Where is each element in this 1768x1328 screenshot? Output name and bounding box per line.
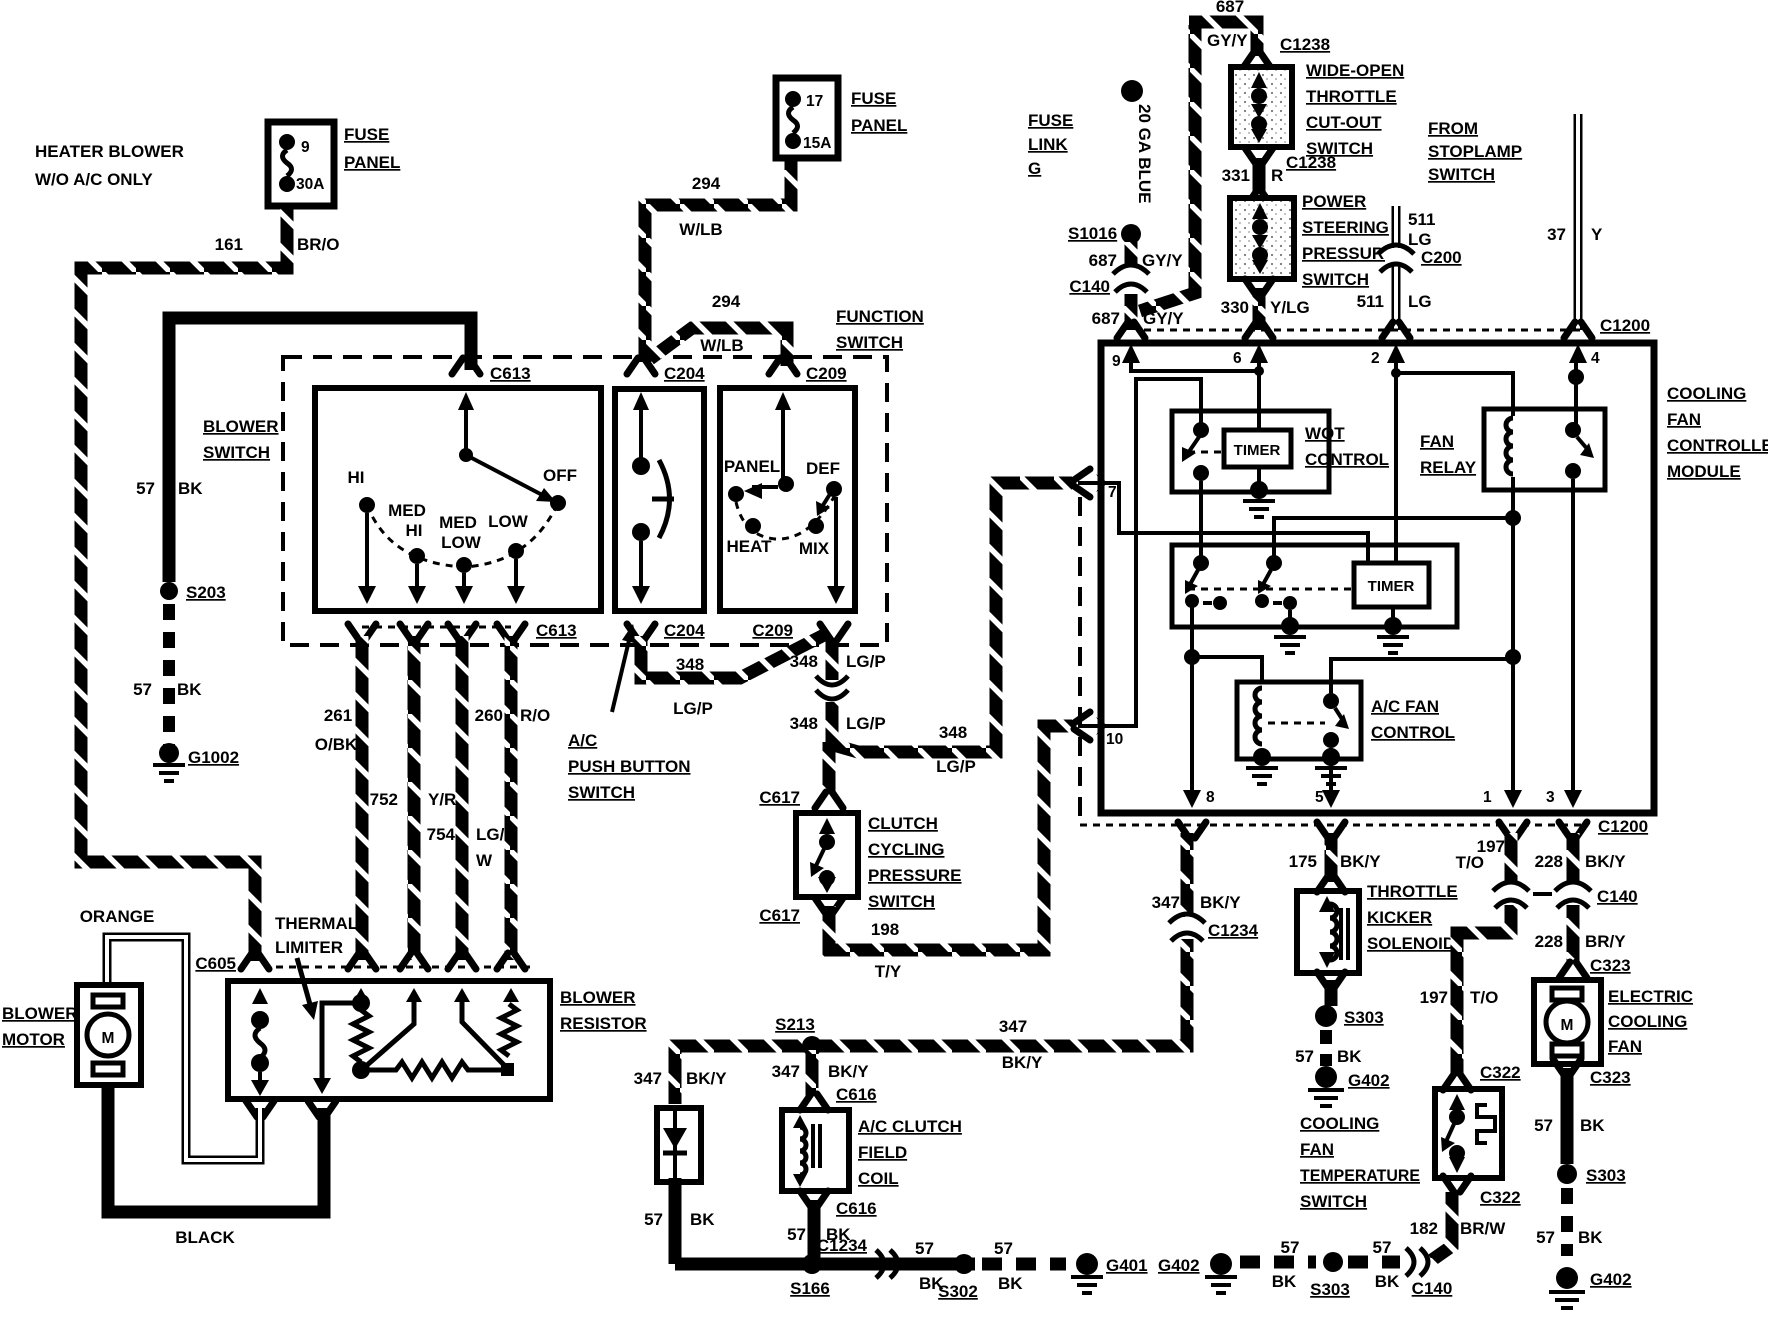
timer 2 box	[1354, 563, 1429, 607]
svg-text:W/O A/C ONLY: W/O A/C ONLY	[35, 170, 153, 189]
pin 4 arrow and number	[1569, 344, 1600, 367]
svg-text:C204: C204	[664, 364, 705, 383]
pin 5 connector	[1317, 822, 1345, 838]
fuse panel F1 (30A fuse 9)	[268, 122, 334, 206]
label FUNCTION SWITCH	[836, 307, 924, 352]
wire 57 BK below coil	[808, 1200, 821, 1260]
svg-text:57: 57	[136, 479, 155, 498]
svg-text:OFF: OFF	[543, 466, 577, 485]
dashed ground run to G401	[982, 1258, 1066, 1271]
wire HI contact down	[358, 513, 376, 604]
svg-text:9: 9	[1112, 353, 1121, 370]
wire 348 LG/P branch to module pin 7	[830, 483, 1072, 752]
svg-text:CUT-OUT: CUT-OUT	[1306, 113, 1382, 132]
timer 1 box	[1224, 430, 1291, 467]
connector below resistor (black tap)	[308, 1101, 336, 1117]
pin 8 internal vertical	[1183, 606, 1201, 808]
svg-text:CONTROLLER: CONTROLLER	[1667, 436, 1768, 455]
wire 198 T/Y to module pin 10	[829, 726, 1072, 950]
label 57 BK	[1373, 1238, 1400, 1291]
svg-text:S302: S302	[938, 1282, 978, 1301]
resistor internal node and black-wire tap	[313, 994, 370, 1094]
black wire from motor to resistor	[108, 1085, 324, 1212]
pin 6 connector	[1245, 322, 1273, 338]
wire 260 R/O	[505, 636, 518, 960]
svg-text:294: 294	[692, 174, 721, 193]
connector C140 (pin3 wire)	[1555, 882, 1638, 908]
svg-text:LG: LG	[1408, 230, 1432, 249]
ground (WOT control)	[1243, 467, 1275, 517]
svg-text:Y/R: Y/R	[428, 790, 456, 809]
svg-text:FAN: FAN	[1420, 432, 1454, 451]
electric cooling fan motor	[1534, 980, 1601, 1064]
pin 6 line to WOT timer	[1257, 360, 1261, 428]
svg-text:FUNCTION: FUNCTION	[836, 307, 924, 326]
svg-text:HI: HI	[406, 521, 423, 540]
svg-text:SWITCH: SWITCH	[836, 333, 903, 352]
connector C613 top	[452, 358, 531, 383]
label COOLING FAN TEMPERATURE SWITCH	[1300, 1114, 1420, 1211]
svg-text:261: 261	[324, 706, 352, 725]
wire 687 GY/Y top run	[1189, 22, 1257, 56]
svg-text:G1002: G1002	[188, 748, 239, 767]
wire 687 GY/Y to pin 9	[1125, 294, 1138, 330]
svg-text:CYCLING: CYCLING	[868, 840, 945, 859]
svg-text:BK: BK	[1580, 1116, 1605, 1135]
ground (A/C coil)	[1246, 748, 1278, 784]
WOT control sub-box	[1172, 411, 1329, 492]
wire LOW contact down	[507, 559, 525, 604]
C605 connectors for switch wires	[348, 953, 376, 969]
svg-text:57: 57	[915, 1239, 934, 1258]
pin 9 arrow and number	[1112, 344, 1140, 370]
label A/C PUSH BUTTON SWITCH with pointer	[568, 624, 690, 802]
C1200 left dashed boundary	[1078, 497, 1082, 822]
svg-text:TIMER: TIMER	[1368, 578, 1415, 595]
label BLOWER RESISTOR	[560, 988, 647, 1033]
svg-text:Y/LG: Y/LG	[1270, 298, 1310, 317]
fuse link 20 GA BLUE terminal dot	[1121, 80, 1143, 102]
svg-text:COOLING: COOLING	[1608, 1012, 1687, 1031]
connector C1238 bottom	[1245, 148, 1336, 172]
contact HI	[348, 468, 376, 513]
pin 2 line down to timer 2	[1391, 360, 1401, 561]
connector C1234 (ground run)	[817, 1236, 898, 1278]
svg-text:S303: S303	[1586, 1166, 1626, 1185]
svg-text:182: 182	[1410, 1219, 1438, 1238]
contact MED LOW	[439, 513, 482, 573]
label CLUTCH CYCLING PRESSURE SWITCH	[868, 814, 962, 911]
svg-text:PANEL: PANEL	[724, 457, 780, 476]
WOT switch contacts	[1182, 422, 1222, 563]
svg-text:HI: HI	[348, 468, 365, 487]
svg-text:COOLING: COOLING	[1300, 1114, 1379, 1133]
svg-text:511: 511	[1357, 292, 1384, 311]
svg-text:WIDE-OPEN: WIDE-OPEN	[1306, 61, 1404, 80]
splice S203	[160, 582, 226, 602]
svg-text:GY/Y: GY/Y	[1207, 31, 1248, 50]
svg-text:8: 8	[1206, 789, 1215, 806]
svg-text:348: 348	[790, 652, 818, 671]
svg-text:LG/P: LG/P	[673, 699, 713, 718]
connector below resistor (orange tap)	[246, 1101, 274, 1117]
svg-text:C322: C322	[1480, 1188, 1521, 1207]
svg-text:RELAY: RELAY	[1420, 458, 1477, 477]
wire 57 BK blower switch ground feed	[169, 318, 471, 582]
svg-text:BK: BK	[1272, 1272, 1297, 1291]
wire 752 entry diagonal	[366, 992, 414, 1066]
wide-open throttle cut-out switch	[1231, 67, 1292, 147]
svg-text:C140: C140	[1412, 1279, 1453, 1298]
svg-text:C323: C323	[1590, 956, 1631, 975]
connector C140 (ground run)	[1406, 1248, 1452, 1298]
wire 37 Y to pin 4	[1574, 114, 1583, 330]
svg-text:C617: C617	[759, 906, 800, 925]
label THROTTLE KICKER SOLENOID	[1367, 882, 1458, 953]
svg-text:BK/Y: BK/Y	[1585, 852, 1626, 871]
label COOLING FAN CONTROLLER MODULE	[1667, 384, 1768, 481]
fan relay contacts	[1565, 422, 1594, 479]
svg-text:G402: G402	[1158, 1256, 1200, 1275]
branch to A/C fan coil	[1192, 657, 1262, 684]
blower motor	[77, 985, 141, 1085]
blower switch dashed outline	[283, 357, 887, 645]
ground run 57 BK bottom	[675, 1258, 975, 1271]
label 57 BK	[994, 1239, 1023, 1293]
connector C1200 dashed line (top)	[1144, 316, 1650, 335]
label ORANGE	[80, 907, 155, 926]
fan relay coil	[1506, 418, 1513, 474]
connector C322 bottom	[1443, 1176, 1521, 1207]
svg-text:CONTROL: CONTROL	[1371, 723, 1455, 742]
svg-text:BK: BK	[1337, 1047, 1362, 1066]
timer 2 dashed link	[1188, 588, 1352, 591]
svg-text:C1200: C1200	[1598, 817, 1648, 836]
svg-text:687: 687	[1089, 251, 1117, 270]
splice S303 (ground run)	[1310, 1252, 1350, 1299]
svg-text:C605: C605	[195, 954, 236, 973]
blower switch internals: feed arrow and pivot	[458, 392, 556, 502]
svg-text:1: 1	[1483, 789, 1492, 806]
pin 9 internal jumper to pin 6 line	[1131, 360, 1264, 376]
svg-text:S1016: S1016	[1068, 224, 1117, 243]
wire 754 entry diagonal	[462, 992, 505, 1066]
pin 10 internal line to WOT contact	[1104, 379, 1201, 726]
svg-text:TIMER: TIMER	[1234, 442, 1281, 459]
pin 1 connector	[1499, 822, 1527, 838]
pin 10 connector and arrow	[1074, 712, 1123, 748]
connector C616 bottom	[800, 1191, 877, 1218]
label BLOWER SWITCH	[203, 417, 279, 462]
svg-text:347: 347	[772, 1062, 800, 1081]
label 347 BK/Y (diode drop)	[634, 1069, 728, 1088]
svg-text:228: 228	[1535, 932, 1563, 951]
dashed 57 BK	[1561, 1188, 1573, 1256]
wire 294 W/LB fuse F2 to C204	[645, 158, 791, 362]
svg-text:RESISTOR: RESISTOR	[560, 1014, 647, 1033]
svg-text:4: 4	[1591, 350, 1600, 367]
splice S303 (fan)	[1557, 1164, 1626, 1185]
svg-text:S166: S166	[790, 1279, 830, 1298]
svg-text:TEMPERATURE: TEMPERATURE	[1300, 1166, 1420, 1185]
A/C fan switch	[1268, 693, 1349, 748]
svg-text:MED: MED	[388, 501, 426, 520]
svg-text:687: 687	[1216, 0, 1244, 16]
splice S1016	[1068, 224, 1141, 244]
svg-text:LINK: LINK	[1028, 135, 1068, 154]
splice S166	[790, 1254, 830, 1298]
ground G402 (engine)	[1158, 1253, 1237, 1293]
svg-text:S203: S203	[186, 583, 226, 602]
ground (A/C switch)	[1315, 748, 1347, 784]
svg-text:PANEL: PANEL	[344, 153, 400, 172]
label 57 BK	[1272, 1238, 1300, 1291]
blower resistor box	[228, 981, 550, 1099]
connector C323 top	[1559, 956, 1631, 978]
svg-text:S303: S303	[1344, 1008, 1384, 1027]
svg-text:MED: MED	[439, 513, 477, 532]
svg-text:57: 57	[644, 1210, 663, 1229]
inline connector on 348 wire	[816, 676, 848, 702]
svg-text:BK: BK	[1578, 1228, 1603, 1247]
svg-text:WOT: WOT	[1305, 424, 1345, 443]
svg-text:198: 198	[871, 920, 899, 939]
pin 8 connector	[1178, 822, 1206, 838]
svg-text:M: M	[1561, 1017, 1574, 1034]
svg-text:687: 687	[1092, 309, 1120, 328]
svg-text:LG/: LG/	[476, 825, 505, 844]
svg-text:57: 57	[1534, 1116, 1553, 1135]
label A/C FAN CONTROL	[1371, 697, 1455, 742]
label 57 BK	[133, 680, 202, 699]
svg-text:LIMITER: LIMITER	[275, 938, 343, 957]
connector C613 bottom row	[348, 621, 577, 640]
svg-text:7: 7	[1108, 484, 1117, 501]
svg-text:BLOWER: BLOWER	[560, 988, 636, 1007]
label THERMAL LIMITER with pointer arrow	[275, 914, 358, 1020]
C605 dashed connector line	[276, 966, 530, 969]
svg-text:LG/P: LG/P	[846, 652, 886, 671]
svg-text:BK/Y: BK/Y	[1200, 893, 1241, 912]
label 687 GY/Y	[1089, 251, 1184, 270]
label 57 BK	[915, 1239, 944, 1293]
svg-text:PANEL: PANEL	[851, 116, 907, 135]
label BLACK	[175, 1228, 235, 1247]
svg-text:5: 5	[1315, 789, 1324, 806]
ground G402 (kicker)	[1308, 1066, 1390, 1106]
wire 57 BK below diode	[669, 1178, 682, 1264]
A/C fan control sub-box	[1237, 682, 1361, 759]
wire 294 W/LB branch to C209	[650, 328, 787, 366]
svg-text:57: 57	[787, 1225, 806, 1244]
svg-text:SOLENOID: SOLENOID	[1367, 934, 1455, 953]
connector C617 bottom	[759, 898, 843, 925]
svg-text:S213: S213	[775, 1015, 815, 1034]
label 687 GY/Y (top)	[1207, 0, 1248, 50]
cooling fan controller module box	[1101, 343, 1654, 813]
svg-text:C613: C613	[536, 621, 577, 640]
wire branch down to C617	[823, 742, 836, 796]
svg-text:THROTTLE: THROTTLE	[1306, 87, 1397, 106]
label 20 GA BLUE (vertical)	[1135, 104, 1154, 204]
connector C209 top	[769, 358, 847, 383]
svg-text:347: 347	[1152, 893, 1180, 912]
svg-text:HEAT: HEAT	[726, 537, 772, 556]
wire 57 BK dashed below S203	[163, 604, 175, 755]
svg-text:9: 9	[301, 139, 310, 156]
pin 4 connector	[1564, 322, 1592, 338]
svg-text:754: 754	[427, 825, 456, 844]
connector C616 top	[800, 1085, 877, 1110]
svg-text:A/C CLUTCH: A/C CLUTCH	[858, 1117, 962, 1136]
wire MED LOW contact down	[455, 573, 473, 604]
svg-text:COIL: COIL	[858, 1169, 899, 1188]
connector C209 bottom	[752, 621, 848, 640]
connector C322 top	[1443, 1063, 1521, 1090]
dashed run G402 to S303	[1240, 1256, 1316, 1269]
svg-text:FAN: FAN	[1608, 1037, 1642, 1056]
svg-text:G401: G401	[1106, 1256, 1148, 1275]
svg-text:57: 57	[1536, 1228, 1555, 1247]
A/C switch bottom to pin 5	[1322, 748, 1340, 808]
svg-text:BLOWER: BLOWER	[203, 417, 279, 436]
clutch cycling pressure switch box	[796, 813, 858, 897]
connector C1234 (inline)	[1169, 914, 1259, 941]
svg-text:161: 161	[215, 235, 243, 254]
svg-text:SWITCH: SWITCH	[203, 443, 270, 462]
wire 347 BK/Y S213 to A/C clutch coil	[806, 1050, 819, 1096]
svg-text:CLUTCH: CLUTCH	[868, 814, 938, 833]
svg-text:BR/O: BR/O	[297, 235, 340, 254]
title text HEATER BLOWER W/O A/C ONLY	[35, 142, 184, 189]
svg-text:FUSE: FUSE	[344, 125, 389, 144]
contact LOW	[488, 512, 529, 559]
pin 3 connector	[1559, 822, 1587, 838]
connector C204 top	[627, 358, 705, 383]
wire 331 R	[1253, 158, 1266, 192]
svg-text:R/O: R/O	[520, 706, 550, 725]
svg-text:BK/Y: BK/Y	[686, 1069, 727, 1088]
connector C605 main	[195, 953, 269, 973]
svg-text:BK: BK	[998, 1274, 1023, 1293]
dashed 57 BK	[1320, 1030, 1332, 1066]
A/C clutch field coil	[782, 1110, 849, 1191]
pin 6 arrow and number	[1233, 344, 1268, 367]
svg-text:LOW: LOW	[488, 512, 529, 531]
svg-text:MOTOR: MOTOR	[2, 1030, 65, 1049]
pin 4 line to relay contact	[1568, 360, 1584, 424]
svg-text:C323: C323	[1590, 1068, 1631, 1087]
label WIDE-OPEN THROTTLE CUT-OUT SWITCH	[1306, 61, 1404, 158]
wire 347 BK/Y pin 8 to S213 run	[675, 833, 1187, 1104]
svg-text:HEATER BLOWER: HEATER BLOWER	[35, 142, 184, 161]
function switch box	[720, 388, 855, 611]
svg-text:C140: C140	[1069, 277, 1110, 296]
svg-text:57: 57	[994, 1239, 1013, 1258]
svg-text:KICKER: KICKER	[1367, 908, 1432, 927]
wire 228 BK/Y pin 3 down	[1567, 833, 1580, 882]
svg-text:Y: Y	[1591, 225, 1603, 244]
svg-text:175: 175	[1289, 852, 1317, 871]
svg-text:BR/W: BR/W	[1460, 1219, 1506, 1238]
label FUSE PANEL (F1)	[344, 125, 400, 172]
svg-text:SWITCH: SWITCH	[1428, 165, 1495, 184]
svg-text:LG/P: LG/P	[936, 757, 976, 776]
svg-text:348: 348	[790, 714, 818, 733]
wire 511 LG from stoplamp switch	[1392, 206, 1401, 330]
svg-text:20 GA BLUE: 20 GA BLUE	[1135, 104, 1154, 204]
pin 7 connector and arrow	[1074, 469, 1117, 501]
svg-text:W/LB: W/LB	[679, 220, 722, 239]
svg-text:T/Y: T/Y	[875, 962, 902, 981]
wire 348 LG/P from C209 bottom down	[826, 640, 839, 742]
svg-text:ELECTRIC: ELECTRIC	[1608, 987, 1693, 1006]
svg-text:348: 348	[939, 723, 967, 742]
label A/C CLUTCH FIELD COIL	[858, 1117, 962, 1188]
svg-text:10: 10	[1106, 731, 1123, 748]
label 511 LG lower	[1357, 292, 1432, 311]
svg-text:M: M	[102, 1030, 115, 1047]
ground G401	[1071, 1253, 1148, 1293]
svg-text:BK: BK	[1375, 1272, 1400, 1291]
connector C204 bottom	[627, 621, 705, 640]
A/C switch top line to pin1 vertical	[1331, 659, 1513, 695]
svg-text:C209: C209	[752, 621, 793, 640]
svg-text:DEF: DEF	[806, 459, 840, 478]
svg-text:LG/P: LG/P	[846, 714, 886, 733]
svg-text:PUSH BUTTON: PUSH BUTTON	[568, 757, 690, 776]
svg-text:T/O: T/O	[1470, 988, 1498, 1007]
svg-text:A/C: A/C	[568, 731, 597, 750]
A/C push button switch box	[615, 389, 704, 611]
resistor R2 vertical zigzag	[501, 988, 519, 1076]
svg-text:R: R	[1271, 166, 1283, 185]
label ELECTRIC COOLING FAN	[1608, 987, 1693, 1056]
svg-text:FAN: FAN	[1300, 1140, 1334, 1159]
pin 2 arrow and number	[1371, 344, 1405, 367]
connector C617 top	[759, 788, 843, 808]
wire 57 BK below fan	[1561, 1068, 1574, 1164]
svg-text:C140: C140	[1597, 887, 1638, 906]
pin 2 connector	[1382, 322, 1410, 338]
svg-text:BK/Y: BK/Y	[1340, 852, 1381, 871]
ground (timer2 left)	[1274, 610, 1306, 653]
function switch internals	[724, 392, 845, 604]
svg-text:BLOWER: BLOWER	[2, 1004, 78, 1023]
svg-text:C1200: C1200	[1600, 316, 1650, 335]
label FAN RELAY	[1420, 432, 1477, 477]
svg-text:STEERING: STEERING	[1302, 218, 1389, 237]
label 161 BR/O	[215, 235, 340, 254]
throttle kicker solenoid	[1297, 891, 1359, 973]
label FROM STOPLAMP SWITCH	[1428, 119, 1522, 184]
dashed selector arc	[367, 503, 558, 567]
svg-text:MODULE: MODULE	[1667, 462, 1741, 481]
dashed run S303 to C140	[1348, 1256, 1400, 1269]
svg-text:C200: C200	[1421, 248, 1462, 267]
timer 2 sub-box	[1172, 545, 1457, 627]
diode CR (A/C clutch diode)	[657, 1108, 701, 1182]
svg-text:PRESSURE: PRESSURE	[868, 866, 962, 885]
svg-text:C617: C617	[759, 788, 800, 807]
svg-text:37: 37	[1547, 225, 1566, 244]
svg-text:S303: S303	[1310, 1280, 1350, 1299]
thermal limiter (inside resistor box)	[251, 988, 269, 1096]
svg-text:17: 17	[806, 93, 823, 110]
wire 182 BR/W to C140	[1432, 1192, 1452, 1260]
svg-text:347: 347	[999, 1017, 1027, 1036]
label 347 BK/Y (run)	[999, 1017, 1043, 1072]
